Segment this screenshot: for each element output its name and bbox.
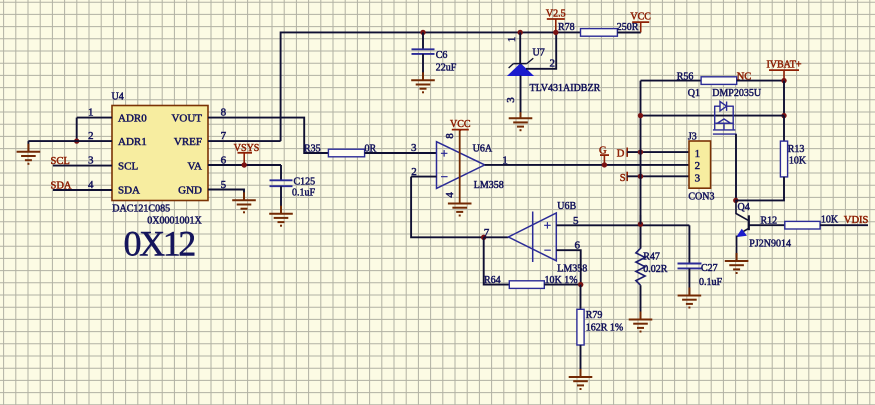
- wire R64 left: [484, 237, 510, 284]
- svg-text:10K: 10K: [821, 215, 839, 226]
- wire U6A output: [485, 164, 689, 166]
- svg-text:R78: R78: [558, 22, 575, 33]
- svg-text:162R 1%: 162R 1%: [586, 323, 624, 334]
- wire top rail: [281, 32, 641, 141]
- wire feedback down: [411, 177, 484, 238]
- svg-text:R12: R12: [761, 215, 778, 226]
- svg-text:R56: R56: [677, 71, 694, 82]
- wire D to J3 pin1: [627, 151, 689, 153]
- wire GND pin5: [208, 190, 244, 201]
- wire R13 bottom: [735, 177, 784, 201]
- wire C6 to ground: [422, 54, 424, 80]
- power port VCC at U6A: [452, 129, 469, 131]
- ground U7: [509, 112, 533, 130]
- ground left of U4: [17, 144, 41, 164]
- svg-text:VCC: VCC: [450, 119, 471, 130]
- svg-text:R64: R64: [484, 275, 501, 286]
- resistor R13: [783, 116, 785, 142]
- wire R56 right: [737, 80, 784, 82]
- wire VREF pin7: [208, 140, 281, 142]
- svg-text:SCL: SCL: [118, 160, 138, 172]
- ground U4 pin5: [232, 192, 256, 212]
- wire Q1 gate down: [735, 134, 737, 200]
- svg-text:1: 1: [695, 148, 701, 160]
- svg-text:+: +: [544, 217, 551, 232]
- svg-text:ADR0: ADR0: [118, 112, 147, 124]
- resistor R56: [701, 77, 737, 85]
- ground C6: [411, 72, 435, 92]
- wire R78 right: [617, 31, 640, 33]
- svg-text:250R: 250R: [617, 22, 639, 33]
- svg-text:−: −: [441, 169, 448, 184]
- wire IVBAT down: [783, 81, 785, 116]
- wire C27 to ground: [688, 268, 690, 295]
- wire Q1 source rail: [641, 115, 785, 117]
- ground U6A: [448, 204, 472, 216]
- svg-text:DAC121C085: DAC121C085: [112, 204, 170, 215]
- wire R12 to VDIS: [820, 224, 868, 226]
- wire R56 left: [641, 80, 702, 82]
- svg-text:6: 6: [575, 239, 581, 251]
- wire C125 to ground: [280, 186, 282, 214]
- wire U4 pin2 to left: [28, 140, 112, 142]
- ground C27: [678, 288, 702, 308]
- U6A power line: [459, 130, 461, 204]
- wire R79 to ground: [580, 345, 582, 377]
- wire S to J3 pin3: [627, 175, 689, 177]
- svg-text:22uF: 22uF: [436, 63, 457, 74]
- svg-text:VOUT: VOUT: [171, 112, 202, 124]
- svg-text:0.1uF: 0.1uF: [292, 188, 316, 199]
- svg-text:TLV431AIDBZR: TLV431AIDBZR: [530, 83, 601, 94]
- wire VA pin6: [208, 164, 281, 166]
- svg-text:U6B: U6B: [557, 201, 576, 212]
- node G junction: [602, 162, 607, 167]
- svg-text:GND: GND: [178, 185, 202, 197]
- wire SDA pin4: [53, 189, 112, 191]
- svg-text:0X12: 0X12: [124, 223, 196, 263]
- svg-text:4: 4: [444, 192, 456, 198]
- IC U4 DAC121C085 body: [112, 106, 208, 201]
- wire U6B pin5: [556, 224, 689, 226]
- svg-text:R13: R13: [788, 144, 805, 155]
- svg-text:VA: VA: [188, 160, 203, 172]
- node R13 top junction: [781, 113, 786, 118]
- node R64 R79 junction: [578, 282, 583, 287]
- svg-text:SDA: SDA: [118, 185, 140, 197]
- resistor R79: [580, 285, 582, 310]
- ground C125: [269, 206, 293, 226]
- svg-text:IVBAT+: IVBAT+: [766, 60, 801, 71]
- svg-text:LM358: LM358: [557, 264, 587, 275]
- svg-text:C27: C27: [701, 263, 718, 274]
- wire U6B output: [484, 236, 509, 238]
- resistor R78: [581, 29, 618, 37]
- wire U7 pin1: [519, 32, 521, 63]
- wire R47 to ground: [640, 285, 642, 319]
- node U7 pin1 tap: [518, 30, 523, 35]
- resistor R35: [328, 149, 364, 157]
- node pin2 junction: [74, 138, 79, 143]
- resistor R64: [509, 281, 544, 289]
- ground R79: [569, 369, 593, 389]
- svg-text:+: +: [441, 146, 448, 161]
- connector J3 CON3: [689, 141, 711, 188]
- svg-text:U4: U4: [112, 92, 124, 103]
- wire U7 pin3: [520, 76, 522, 119]
- node C6 tap: [420, 30, 425, 35]
- svg-text:3: 3: [411, 142, 417, 154]
- node S junction: [638, 174, 643, 179]
- capacitor C27: [688, 225, 690, 263]
- svg-text:CON3: CON3: [688, 192, 714, 203]
- svg-text:8: 8: [444, 133, 456, 139]
- node Q1 rail left junction: [638, 113, 643, 118]
- svg-text:DMP2035U: DMP2035U: [712, 88, 762, 99]
- power port V2.5: [547, 18, 565, 20]
- svg-text:1: 1: [502, 154, 508, 166]
- svg-text:V2.5: V2.5: [546, 9, 566, 20]
- svg-text:LM358: LM358: [474, 180, 504, 191]
- capacitor C125: [280, 165, 282, 180]
- resistor R12: [785, 221, 820, 229]
- node R47 junction: [638, 222, 643, 227]
- svg-text:U7: U7: [533, 48, 545, 59]
- svg-text:7: 7: [484, 227, 490, 239]
- node D junction: [638, 149, 643, 154]
- svg-text:J3: J3: [688, 132, 697, 143]
- node Q4 collector junction: [733, 198, 738, 203]
- power port IVBAT+: [769, 69, 799, 71]
- svg-text:C125: C125: [294, 177, 316, 188]
- resistor R47 zigzag: [636, 224, 645, 285]
- wire VOUT pin8: [208, 118, 328, 153]
- svg-text:−: −: [544, 242, 551, 257]
- wire R35 to U6A pin3: [365, 152, 437, 154]
- svg-text:S: S: [620, 173, 626, 184]
- wire U4 pin1: [77, 117, 112, 119]
- svg-text:2: 2: [695, 160, 701, 172]
- svg-text:VCC: VCC: [630, 12, 651, 23]
- svg-text:R79: R79: [586, 310, 603, 321]
- svg-text:3: 3: [505, 97, 517, 103]
- wire U6B pin6: [556, 250, 580, 284]
- op-amp U6A triangle: [437, 142, 485, 189]
- node IVBAT junction: [781, 78, 786, 83]
- node VSYS junction: [242, 162, 247, 167]
- wire R64 right: [544, 284, 580, 286]
- op-amp U6B triangle: [508, 213, 556, 261]
- svg-text:2: 2: [411, 166, 417, 178]
- svg-text:0.02R: 0.02R: [643, 264, 668, 275]
- svg-text:R47: R47: [643, 252, 660, 263]
- wire SCL pin3: [53, 165, 112, 167]
- svg-text:10K: 10K: [789, 156, 807, 167]
- wire U7 pin2: [526, 32, 556, 68]
- svg-text:2: 2: [550, 57, 556, 69]
- svg-text:VDIS: VDIS: [844, 215, 869, 226]
- svg-text:D: D: [617, 149, 625, 160]
- svg-text:Q1: Q1: [688, 88, 700, 99]
- svg-text:ADR1: ADR1: [118, 136, 147, 148]
- wire vertical Q1 drain bus: [640, 81, 642, 225]
- svg-text:Q4: Q4: [738, 202, 750, 213]
- svg-text:1: 1: [506, 37, 518, 43]
- wire R47 top stub: [640, 215, 642, 248]
- svg-text:R35: R35: [304, 144, 321, 155]
- power port VCC at R78: [632, 21, 649, 23]
- node V2.5 junction: [553, 30, 558, 35]
- svg-text:PJ2N9014: PJ2N9014: [749, 239, 791, 250]
- ground R47: [629, 312, 653, 332]
- svg-text:U6A: U6A: [473, 144, 493, 155]
- capacitor C6: [422, 32, 424, 49]
- wire U4 pin1 to pin2: [76, 118, 78, 142]
- wire U6A pin2: [411, 176, 436, 178]
- node U6B out junction: [481, 235, 486, 240]
- shunt regulator U7 TLV431: [508, 64, 533, 76]
- ground Q4: [725, 253, 749, 273]
- svg-text:3: 3: [695, 172, 701, 184]
- svg-text:C6: C6: [436, 50, 448, 61]
- svg-text:VREF: VREF: [174, 136, 202, 148]
- wire Q4 base to R12: [749, 224, 785, 226]
- svg-text:5: 5: [573, 215, 579, 227]
- svg-text:0.1uF: 0.1uF: [699, 277, 723, 288]
- wire down to ground: [27, 141, 29, 152]
